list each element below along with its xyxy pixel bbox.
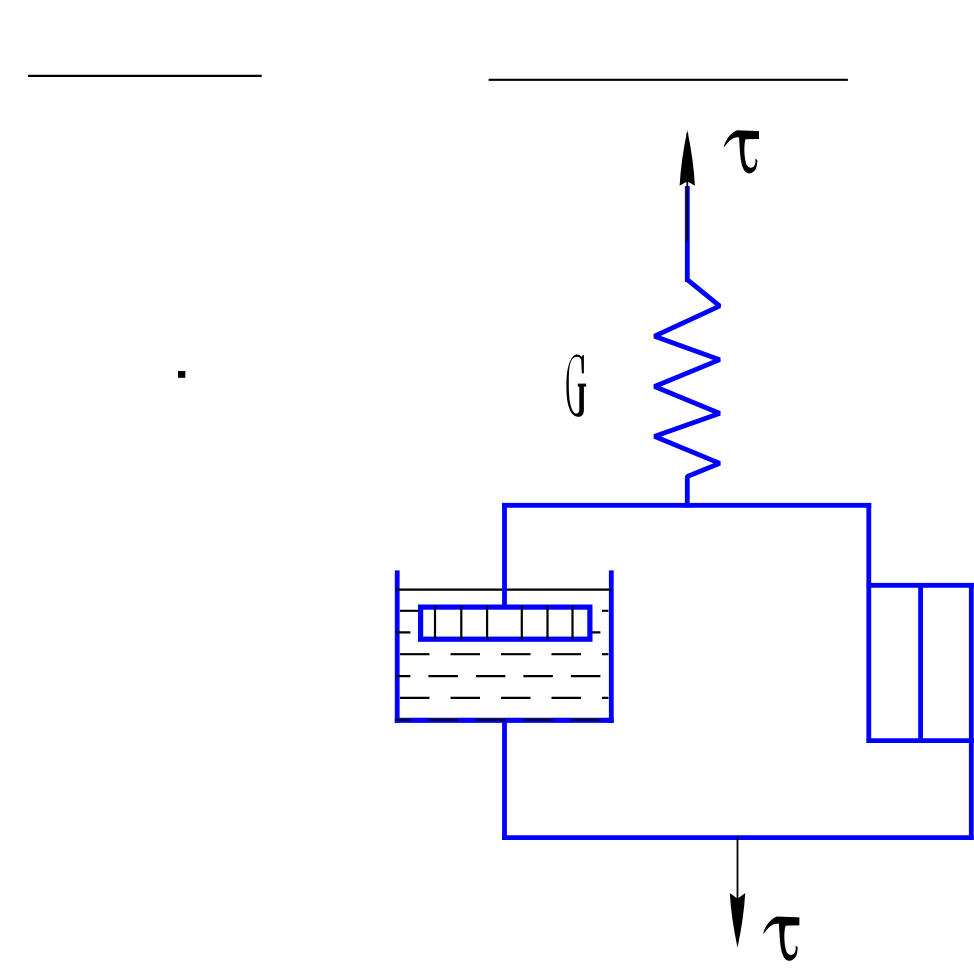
- dashpot container bottom: [395, 718, 614, 723]
- piston hatch 1: [434, 606, 436, 641]
- friction element top plate: [866, 583, 974, 588]
- fluid surface line: [396, 588, 611, 590]
- period dot: [178, 371, 185, 378]
- dashpot container right wall: [609, 570, 614, 723]
- friction element right wall wire: [969, 583, 974, 840]
- label tau top: [724, 130, 759, 173]
- fluid dashed row 3: [400, 653, 608, 655]
- piston hatch 3: [486, 606, 488, 641]
- arrowhead bottom: [730, 893, 745, 948]
- wire piston rod: [502, 503, 507, 608]
- fluid dashed row 5: [400, 697, 608, 699]
- label tau bottom: [763, 917, 799, 961]
- fluid dashed row 6 on bottom: [395, 719, 608, 721]
- friction element middle plate: [918, 583, 923, 743]
- piston hatch 6: [571, 606, 573, 641]
- fluid dashed row 1: [400, 610, 608, 612]
- label G: [566, 354, 586, 416]
- rule line left: [28, 75, 262, 77]
- fluid dashed row 4: [395, 675, 608, 677]
- spring G: [655, 280, 720, 508]
- piston plate: [421, 607, 590, 639]
- frame top edge: [502, 503, 871, 508]
- arrow tau bottom shaft: [737, 837, 739, 899]
- wire upper shaft: [685, 186, 690, 282]
- arrow tau top shaft: [686, 133, 688, 242]
- frame right upper wire / friction left wall: [866, 503, 871, 743]
- frame left lower wire: [502, 722, 507, 841]
- piston hatch 2: [460, 606, 462, 641]
- piston hatch 5: [546, 606, 548, 641]
- arrowhead top: [680, 130, 695, 186]
- frame bottom edge: [502, 835, 974, 840]
- rule line right: [489, 79, 848, 81]
- friction element bottom plate: [866, 738, 974, 743]
- fluid dashed row 2: [395, 631, 608, 633]
- piston hatch 4: [521, 606, 523, 641]
- dashpot container left wall: [395, 570, 400, 723]
